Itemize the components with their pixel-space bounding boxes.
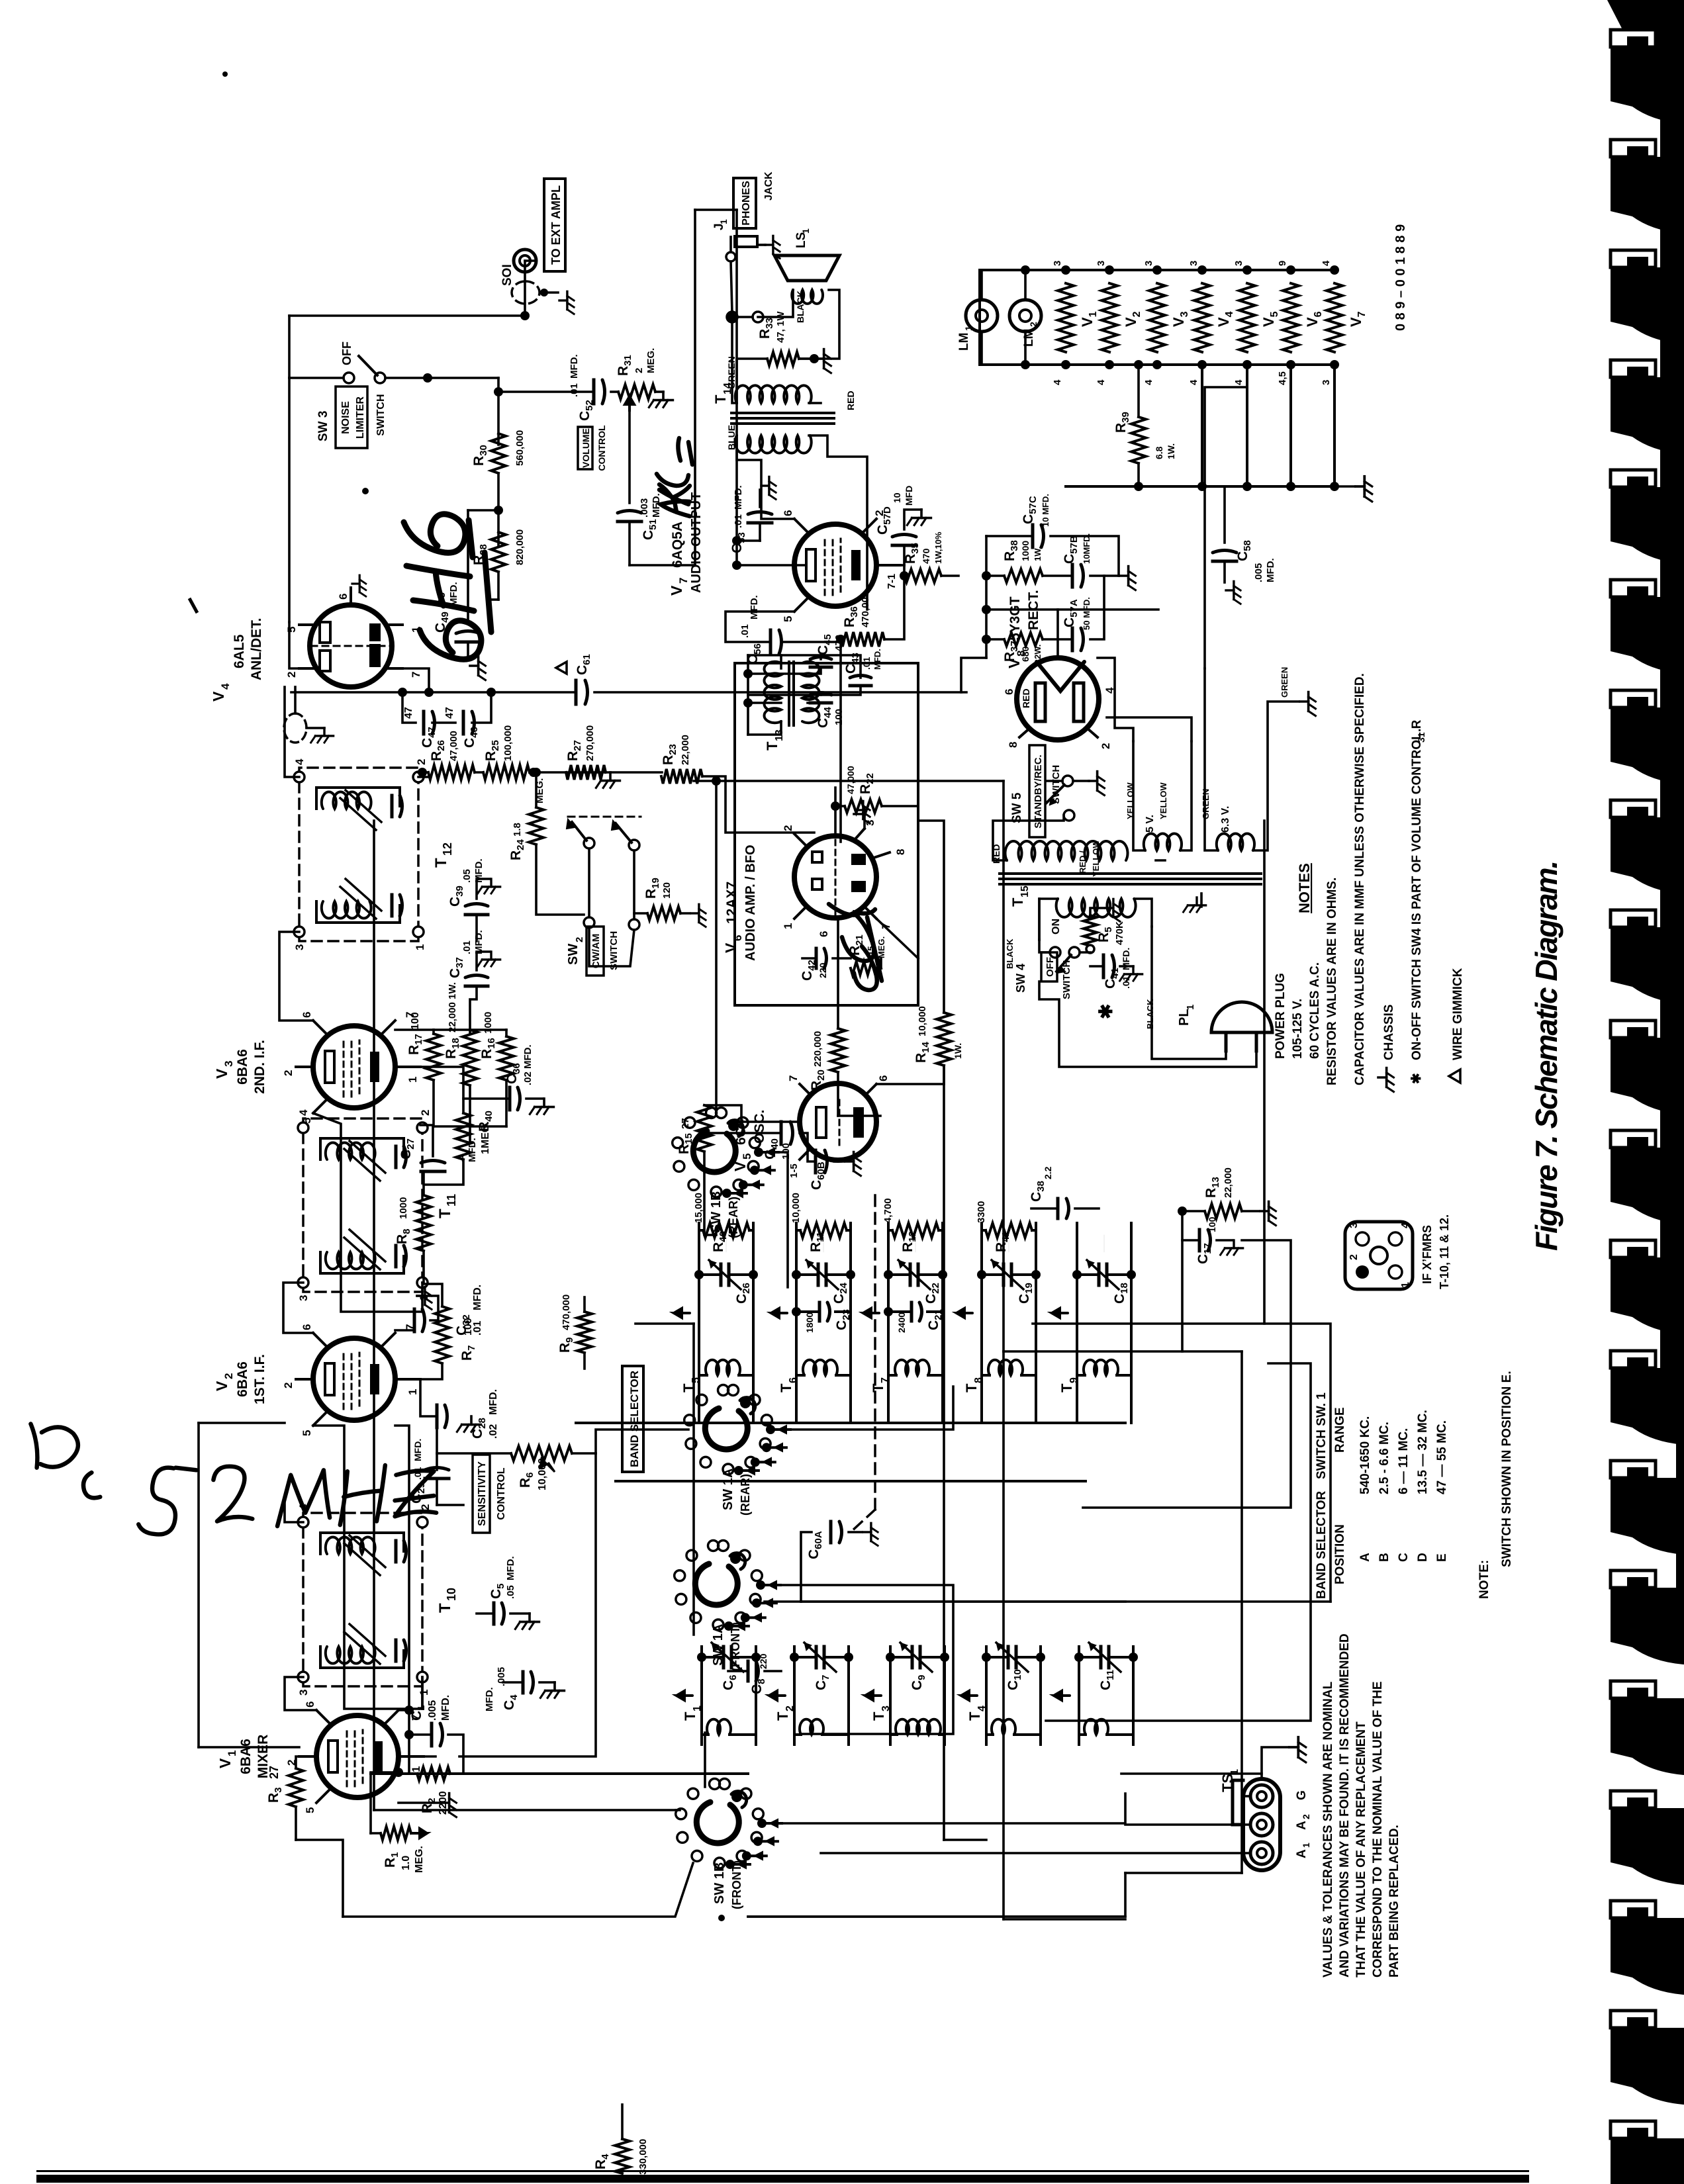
volume control R31 2 MEG potentiometer	[618, 385, 655, 399]
IF XFMR pin diagram	[1345, 1222, 1413, 1289]
binder comb tooth 5	[1611, 470, 1656, 487]
svg-text:T: T	[764, 741, 780, 751]
stray pen tick left margin	[189, 598, 197, 613]
svg-text:ON: ON	[1051, 919, 1062, 934]
bus bottom return	[1240, 1351, 1243, 1873]
terminal strip TS1	[1243, 1779, 1280, 1870]
svg-text:T: T	[436, 1603, 454, 1613]
svg-text:22,000: 22,000	[1223, 1167, 1234, 1198]
power plug PL1	[1211, 1002, 1272, 1032]
svg-text:.005: .005	[427, 1700, 438, 1721]
svg-text:(REAR): (REAR)	[727, 1197, 740, 1238]
svg-text:220: 220	[818, 962, 828, 978]
svg-text:1: 1	[1400, 1282, 1411, 1288]
svg-text:.01: .01	[861, 657, 872, 670]
enclosure loop around V6/T13	[733, 663, 736, 1005]
svg-text:6BA6: 6BA6	[238, 1739, 254, 1774]
svg-text:6: 6	[301, 1012, 313, 1018]
pilot lamp LM2	[1009, 300, 1041, 332]
svg-text:3: 3	[880, 1706, 892, 1711]
VOLUME CONTROL boxed label	[578, 427, 592, 469]
svg-text:MFD.: MFD.	[569, 354, 580, 379]
dashed gimmick C50 with ground	[284, 713, 306, 743]
svg-text:WIRE GIMMICK: WIRE GIMMICK	[1451, 968, 1465, 1060]
svg-text:3: 3	[1096, 261, 1107, 266]
T12 terminals	[294, 927, 304, 937]
svg-text:4: 4	[1188, 379, 1199, 385]
svg-text:SWITCH: SWITCH	[608, 931, 620, 970]
svg-text:SW 1A: SW 1A	[721, 1469, 735, 1510]
T7 left feed	[887, 1385, 890, 1423]
antenna trimmer C11	[1099, 1647, 1103, 1668]
binder comb tooth 9	[1611, 910, 1656, 927]
heater of V4	[1194, 283, 1210, 352]
wire V1 pin1 to R1	[371, 1832, 381, 1835]
band switch wafer SW 1A (REAR)	[684, 1385, 790, 1516]
wire mixer out bus	[398, 1710, 409, 1735]
bus from SW1B rear to osc clusters	[760, 1152, 788, 1287]
svg-text:1: 1	[410, 1766, 422, 1772]
T10 terminals	[298, 1672, 308, 1682]
SW2 wiring	[588, 848, 590, 917]
svg-text:47,000: 47,000	[448, 731, 459, 761]
cap C38 2.2	[1056, 1199, 1060, 1218]
svg-text:2: 2	[222, 1373, 235, 1379]
T5 left feed	[698, 1385, 700, 1423]
wire T11 to V3 grid	[313, 1113, 422, 1312]
svg-text:6: 6	[301, 1324, 313, 1330]
svg-text:105-125 V.: 105-125 V.	[1291, 999, 1305, 1059]
svg-text:2.5 - 6.6 MC.: 2.5 - 6.6 MC.	[1378, 1422, 1391, 1494]
svg-text:RED: RED	[845, 390, 856, 410]
svg-text:THAT THE VALUE OF ANY REPLACEM: THAT THE VALUE OF ANY REPLACEMENT	[1354, 1721, 1368, 1978]
antenna section rails at C10	[985, 1647, 988, 1745]
svg-text:7: 7	[880, 1377, 891, 1383]
svg-text:2: 2	[419, 1504, 432, 1510]
svg-text:SW 5: SW 5	[1010, 792, 1024, 823]
svg-text:BLACK: BLACK	[795, 291, 806, 323]
svg-text:470: 470	[833, 635, 845, 651]
svg-text:PHONES: PHONES	[741, 181, 752, 226]
svg-text:.: .	[1410, 729, 1424, 732]
capacitor C36 .02 MFD	[508, 1087, 512, 1110]
osc trimmer C22	[909, 1264, 912, 1285]
svg-text:NOISE: NOISE	[340, 401, 351, 434]
svg-text:470,000: 470,000	[860, 592, 871, 627]
svg-text:SW 3: SW 3	[316, 411, 330, 441]
antenna rotor arrow at C9	[865, 1691, 881, 1700]
SOI ground stub	[540, 289, 548, 296]
V6 pin3 ground	[854, 814, 865, 829]
heater return wire V5	[1246, 365, 1248, 486]
PHONES JACK boxed label	[733, 178, 756, 228]
svg-text:SWITCH SHOWN IN POSITION E: SWITCH SHOWN IN POSITION E.	[1500, 1371, 1514, 1567]
jack ground	[757, 244, 765, 246]
svg-text:1: 1	[406, 1389, 419, 1395]
osc trimmer C18	[1098, 1264, 1101, 1285]
svg-text:5: 5	[782, 616, 794, 622]
capacitor C52 .01 MFD	[592, 380, 596, 404]
svg-text:9: 9	[1277, 261, 1288, 266]
binder comb tooth 7	[1611, 690, 1656, 707]
STANDBY/REC boxed label	[1029, 745, 1045, 837]
svg-text:4: 4	[219, 683, 232, 690]
svg-text:2: 2	[419, 1110, 432, 1116]
cap C43 .01 MFD	[850, 684, 871, 688]
svg-text:2: 2	[633, 368, 645, 373]
antenna section rails at C11	[1078, 1647, 1080, 1745]
svg-text:1: 1	[718, 219, 729, 224]
svg-text:.003: .003	[639, 498, 650, 518]
svg-text:1: 1	[226, 1751, 238, 1756]
svg-text:V: V	[213, 1068, 230, 1079]
svg-text:7: 7	[787, 1075, 800, 1081]
resistor R33 47 1W	[767, 352, 799, 365]
bus detector AVC line	[373, 1648, 375, 1810]
NOISE LIMITER SWITCH boxed label	[336, 387, 367, 448]
antenna trimmer C9	[911, 1647, 914, 1668]
IF transformer T10 dashed box	[303, 1513, 422, 1686]
svg-text:CW/AM: CW/AM	[590, 934, 602, 969]
heater of V7	[1327, 283, 1342, 352]
osc padder C21 2400	[910, 1302, 913, 1321]
svg-text:1W,10%: 1W,10%	[933, 531, 943, 564]
resistor R21 15 MEG	[851, 962, 881, 975]
switch SW4 on-off	[1050, 947, 1060, 958]
svg-text:1: 1	[963, 326, 974, 331]
wire V7 plate to T14 primary	[737, 435, 794, 519]
svg-text:220,000: 220,000	[812, 1031, 823, 1067]
resistor R20 220,000	[831, 1028, 845, 1072]
svg-text:4: 4	[1321, 260, 1332, 266]
cap C4 .005 MFD	[522, 1672, 525, 1693]
osc coil T7	[895, 1360, 929, 1375]
long chassis bus through R14 row	[943, 1066, 945, 1840]
svg-text:G: G	[1295, 1790, 1309, 1800]
heater of V6	[1283, 283, 1299, 352]
long vertical feed at x1062	[616, 1480, 1086, 1482]
svg-text:.02 MFD.: .02 MFD.	[522, 1044, 534, 1085]
bus lower return	[1033, 821, 1264, 1324]
svg-text:RESISTOR VALUES ARE IN OHM: RESISTOR VALUES ARE IN OHMS.	[1325, 878, 1339, 1085]
wire sensitivity net	[437, 1452, 511, 1455]
resistor R9 470,000	[577, 1312, 592, 1353]
svg-text:47, 1W: 47, 1W	[775, 311, 786, 343]
svg-text:5: 5	[285, 627, 298, 633]
wire V3 cathode to R40	[420, 1067, 463, 1113]
antenna trimmer C6	[722, 1647, 725, 1668]
svg-text:2.2: 2.2	[1043, 1166, 1053, 1179]
osc resistor R12 4,700	[892, 1223, 939, 1238]
svg-text:3: 3	[293, 944, 306, 950]
svg-text:1: 1	[418, 1690, 430, 1696]
band switch wafer SW 1A (FRONT)	[675, 1541, 780, 1672]
T11 primary winding	[326, 1252, 375, 1269]
resistor R8 1000	[416, 1195, 431, 1251]
capacitor C32 .01 MFD at V2 screen	[413, 1309, 416, 1332]
band switch wafer SW 1B (REAR)	[673, 1108, 778, 1239]
svg-text:3: 3	[1321, 380, 1332, 385]
long link wires lower	[1046, 1363, 1311, 1721]
wire filter to T14 RED	[961, 658, 986, 692]
svg-text:4: 4	[297, 1109, 310, 1116]
SOI antenna connector double circle	[514, 250, 536, 272]
svg-text:T-10, 11 & 12.: T-10, 11 & 12.	[1438, 1214, 1451, 1289]
heater 6.3V feed wires	[1205, 365, 1247, 668]
svg-text:470: 470	[921, 548, 931, 564]
heater return wire V7	[1333, 365, 1336, 486]
svg-text:JACK: JACK	[763, 171, 774, 201]
svg-text:4: 4	[293, 758, 306, 765]
TS1 antenna feed wires	[821, 1852, 1250, 1854]
svg-text:2W.: 2W.	[1033, 645, 1043, 659]
svg-text:820,000: 820,000	[514, 529, 526, 565]
svg-text:6BA6: 6BA6	[235, 1361, 250, 1397]
capacitor C56 .01 MFD coupling	[769, 630, 772, 654]
T8 left feed	[980, 1385, 983, 1423]
osc resistor R41 3300	[986, 1223, 1032, 1238]
svg-text:10 MFD.: 10 MFD.	[1041, 494, 1051, 527]
svg-text:6: 6	[877, 1075, 890, 1081]
handwritten 4KC annotation	[657, 438, 692, 516]
svg-text:6 — 11 MC.: 6 — 11 MC.	[1397, 1428, 1411, 1494]
svg-text:V: V	[210, 691, 227, 702]
binder comb tooth 15	[1611, 1570, 1656, 1588]
svg-text:6: 6	[1003, 689, 1015, 695]
cap C8 220	[747, 1661, 750, 1681]
wire V2 cathode net	[395, 1320, 414, 1330]
T10 primary slug arrows	[344, 1632, 380, 1664]
svg-text:MFD.: MFD.	[412, 1439, 423, 1461]
svg-text:4: 4	[1400, 1222, 1411, 1228]
capacitor C39 .05 MFD	[465, 913, 488, 917]
heater of V2	[1101, 283, 1117, 352]
svg-text:C: C	[1397, 1553, 1411, 1562]
wire V3 plate to T12	[279, 932, 313, 1021]
svg-text:SWITCH SW. 1: SWITCH SW. 1	[1315, 1392, 1329, 1479]
osc section T5 rails	[698, 1223, 700, 1385]
T15 primary winding	[1056, 899, 1136, 917]
cap C17 100	[1198, 1230, 1201, 1251]
filter cap C57B 10MFD	[1071, 565, 1074, 587]
svg-text:MFD.: MFD.	[505, 1556, 516, 1580]
svg-text:4: 4	[1096, 379, 1107, 385]
antenna rotor arrow at C6	[677, 1691, 692, 1700]
svg-text:RANGE: RANGE	[1333, 1407, 1347, 1453]
antenna rotor arrow at C7	[769, 1691, 785, 1700]
svg-text:ON-OFF SWITCH SW4 IS PART OF V: ON-OFF SWITCH SW4 IS PART OF VOLUME CONT…	[1410, 719, 1424, 1060]
T10 secondary tuning cap	[320, 1531, 404, 1534]
T11 primary slug arrows	[344, 1238, 380, 1269]
resistor R22 47,000	[845, 799, 882, 813]
osc resistor R40 15,000	[703, 1223, 749, 1238]
svg-text:47: 47	[444, 707, 455, 719]
resistor R30 560,000	[491, 433, 506, 473]
antenna trimmer C10	[1007, 1647, 1010, 1668]
svg-text:1.0: 1.0	[400, 1856, 412, 1870]
svg-text:6: 6	[731, 935, 744, 941]
binder comb tooth 14	[1611, 1461, 1656, 1478]
R33 ground	[799, 357, 814, 360]
resistor R14 10,000 1W	[937, 1013, 951, 1066]
OFF boxed label	[1041, 952, 1057, 981]
binder comb tooth 3	[1611, 250, 1656, 267]
T9 left feed	[1076, 1385, 1078, 1423]
osc trimmer C26	[720, 1264, 723, 1285]
svg-text:SWITCH: SWITCH	[1051, 765, 1062, 804]
wire V6 plate line	[839, 639, 842, 842]
svg-text:2: 2	[1348, 1254, 1360, 1260]
svg-text:10: 10	[445, 1588, 458, 1601]
svg-text:10,000: 10,000	[790, 1193, 802, 1223]
bus grid feed lines	[692, 1324, 695, 1635]
svg-text:BAND SELECTOR: BAND SELECTOR	[628, 1371, 641, 1467]
svg-text:V: V	[216, 1758, 234, 1768]
svg-text:MFD.: MFD.	[1265, 558, 1276, 582]
svg-text:T: T	[436, 1208, 454, 1218]
svg-text:8: 8	[973, 1377, 984, 1383]
long wire mixer column x620	[371, 1772, 748, 1775]
svg-text:1: 1	[1229, 1769, 1240, 1775]
svg-text:50 MFD.: 50 MFD.	[1082, 597, 1092, 630]
bus AVC drop to wafer	[676, 1809, 680, 1811]
binder comb tooth 17	[1611, 1791, 1656, 1808]
svg-text:470,000: 470,000	[561, 1295, 572, 1330]
svg-text:1W.: 1W.	[1166, 443, 1176, 459]
cap C42 220	[815, 948, 818, 968]
svg-text:560,000: 560,000	[514, 430, 526, 466]
svg-text:POSITION: POSITION	[1333, 1524, 1347, 1584]
resistor R3 27 at V1 grid	[289, 1768, 303, 1807]
svg-text:MFD.: MFD.	[440, 1695, 451, 1721]
svg-text:T: T	[963, 1383, 980, 1392]
capacitor C51 .003 MFD	[618, 520, 641, 523]
bus osc box top	[1002, 781, 1005, 1351]
svg-text:MFD.: MFD.	[484, 1687, 495, 1711]
svg-text:MFD.: MFD.	[472, 1285, 483, 1310]
svg-text:330,000: 330,000	[637, 2139, 649, 2175]
svg-text:VALUES & TOLERANCES SHOWN ARE: VALUES & TOLERANCES SHOWN ARE NOMINAL	[1321, 1681, 1335, 1978]
chassis ground note symbol	[1378, 1068, 1393, 1092]
svg-text:MFD.: MFD.	[733, 485, 744, 510]
T5 rotor ground arrow	[725, 1235, 727, 1252]
cap C40 100	[780, 1122, 783, 1144]
tube V8 5Y3GT rectifier	[1003, 590, 1116, 749]
SENSITIVITY CONTROL boxed label	[473, 1455, 490, 1533]
svg-text:4: 4	[976, 1706, 988, 1711]
svg-text:4,5: 4,5	[1277, 371, 1288, 385]
wire T12 to V4	[285, 687, 299, 777]
handwritten 52 MHZ annotation	[30, 1424, 436, 1534]
antenna section rails at C7	[793, 1647, 796, 1745]
T12 primary tuning cap	[316, 921, 400, 924]
heater supply rails	[980, 363, 1334, 366]
svg-text:1800: 1800	[804, 1312, 815, 1333]
svg-text:100: 100	[463, 1318, 474, 1336]
resistor R36 470,000	[841, 632, 884, 647]
osc coil T9	[1084, 1360, 1118, 1375]
long vertical feed at x1150	[576, 1422, 1125, 1424]
osc section T9 rails	[1076, 1223, 1078, 1385]
IF transformer T12 dashed box	[299, 768, 418, 941]
resistor R7 100 at V2 cathode	[435, 1306, 449, 1363]
binder comb tooth 4	[1611, 360, 1656, 377]
svg-text:2: 2	[1028, 322, 1039, 327]
svg-text:NOTES: NOTES	[1296, 863, 1313, 913]
svg-text:31: 31	[1416, 732, 1427, 743]
svg-text:✱: ✱	[1096, 1004, 1116, 1019]
long wire to R13	[1181, 1211, 1184, 1351]
lower heater rail	[1066, 485, 1334, 488]
antenna section rails at C6	[700, 1647, 703, 1745]
svg-text:0 8 9 – 0 0 1 8 8 9: 0 8 9 – 0 0 1 8 8 9	[1393, 224, 1408, 331]
heater of V1	[1058, 283, 1074, 352]
svg-text:100: 100	[833, 709, 845, 725]
svg-text:LM: LM	[957, 333, 971, 351]
svg-text:5: 5	[690, 1377, 702, 1383]
svg-text:1: 1	[782, 923, 794, 929]
osc coil T8	[988, 1360, 1023, 1375]
svg-text:7: 7	[410, 672, 422, 678]
V7 grid long line	[694, 210, 696, 565]
binder comb tooth 16	[1611, 1681, 1656, 1698]
svg-text:CHASSIS: CHASSIS	[1382, 1005, 1396, 1060]
svg-text:8: 8	[894, 849, 907, 855]
svg-text:1000: 1000	[398, 1197, 409, 1219]
wire C46/C47 chain	[402, 692, 416, 723]
antenna coil T2	[800, 1719, 823, 1735]
switch SW2 cw/am	[584, 838, 594, 848]
capacitor C57D 10 MFD	[892, 544, 916, 547]
binder comb tooth 10	[1611, 1021, 1656, 1038]
heater return wire V6	[1289, 365, 1292, 486]
tube V2 6BA6 1ST I.F.	[213, 1324, 420, 1436]
svg-text:2400: 2400	[896, 1312, 907, 1333]
wire R30 to R28	[497, 473, 500, 545]
svg-text:BLACK: BLACK	[1005, 938, 1015, 969]
ground stub below V1	[398, 1801, 440, 1804]
svg-text:1: 1	[692, 1706, 703, 1711]
cap C5 .05 MFD	[492, 1603, 496, 1624]
capacitor C27 .1 MFD	[421, 1170, 445, 1173]
svg-text:OFF: OFF	[340, 341, 353, 365]
svg-text:IF X’FMRS: IF X’FMRS	[1421, 1225, 1434, 1284]
SW4 wiring to primary	[1039, 940, 1050, 952]
wires to T4/T9 down	[801, 1600, 1125, 1603]
stray dot top	[222, 71, 228, 77]
svg-text:540-1650 KC.: 540-1650 KC.	[1358, 1416, 1372, 1494]
osc grid line	[704, 1171, 716, 1235]
capacitor C47 47	[422, 711, 426, 734]
capacitor C37 .01 MFD	[465, 985, 488, 988]
svg-text:4: 4	[1052, 379, 1063, 385]
svg-text:GREEN: GREEN	[1280, 667, 1289, 698]
detector output bus vertical x2246	[291, 691, 573, 694]
antenna rotor arrow at C11	[1054, 1691, 1070, 1700]
svg-text:AUDIO OUTPUT: AUDIO OUTPUT	[689, 492, 704, 593]
svg-text:2: 2	[782, 825, 794, 831]
svg-text:3300: 3300	[976, 1201, 987, 1223]
svg-text:2: 2	[784, 1706, 796, 1711]
svg-text:LIMITER: LIMITER	[355, 396, 366, 439]
svg-text:2: 2	[415, 759, 428, 765]
resistor R19 120	[647, 907, 680, 920]
heater of V3	[1149, 283, 1165, 352]
svg-text:TO EXT AMPL: TO EXT AMPL	[549, 185, 563, 265]
svg-text:MEG.: MEG.	[645, 348, 657, 373]
band selector dashed section divider	[874, 1195, 876, 1510]
svg-text:100: 100	[410, 1012, 421, 1030]
